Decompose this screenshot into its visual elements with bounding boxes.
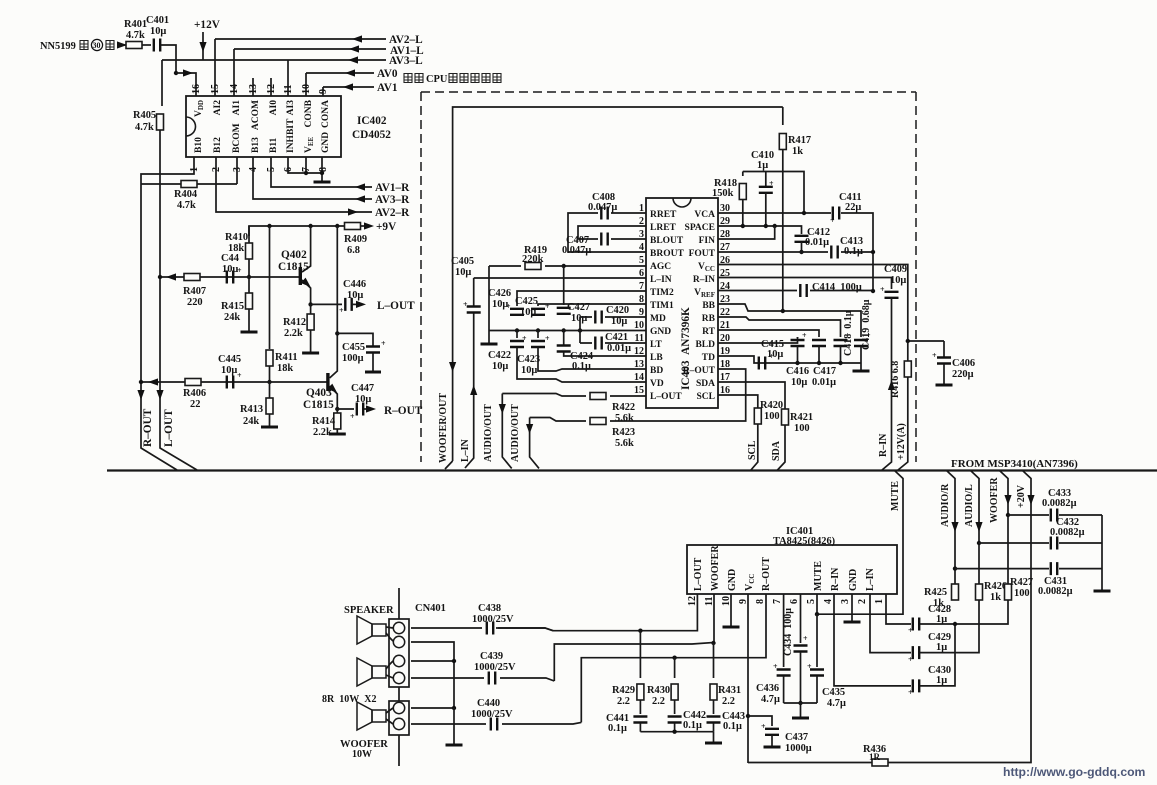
capacitor C447 — [337, 408, 354, 410]
svg-text:2.2: 2.2 — [617, 696, 630, 707]
svg-text:C401: C401 — [146, 15, 169, 26]
capacitor C414 — [800, 284, 806, 297]
wire pin16 SCL to R420 — [718, 395, 758, 408]
connector CN401 — [389, 588, 409, 766]
svg-text:10: 10 — [301, 84, 312, 94]
svg-text:R404: R404 — [174, 189, 197, 200]
wire L-OUT coupling row — [311, 303, 342, 305]
svg-text:C440: C440 — [477, 698, 500, 709]
wire Q402 emitter node — [308, 302, 312, 306]
capacitor C429 — [913, 646, 919, 659]
capacitor C422 — [488, 331, 527, 373]
svg-text:TIM1: TIM1 — [650, 301, 674, 311]
ground C434 — [792, 717, 809, 719]
svg-text:AV3–R: AV3–R — [375, 194, 410, 206]
capacitor C440 — [491, 718, 497, 731]
svg-text:+: + — [803, 634, 808, 643]
ground C437 — [764, 746, 781, 748]
svg-text:BD: BD — [650, 366, 663, 376]
svg-text:R–OUT: R–OUT — [142, 408, 154, 447]
svg-text:0.01μ: 0.01μ — [812, 377, 836, 388]
svg-text:+12V: +12V — [194, 19, 221, 31]
svg-text:10μ: 10μ — [492, 361, 508, 372]
ground R412 — [302, 352, 319, 354]
wire pin15 L-OUT row with R422 — [502, 394, 646, 397]
wire C433 row — [1008, 514, 1102, 516]
svg-text:10μ: 10μ — [347, 290, 363, 301]
svg-text:IC402: IC402 — [357, 115, 387, 127]
IC401 pin numbers rotated — [687, 596, 885, 606]
svg-text:+: + — [908, 688, 913, 697]
wire AV1 line from pin9 — [323, 87, 374, 96]
wire AV3-L line — [162, 59, 386, 61]
svg-text:16: 16 — [191, 84, 202, 94]
capacitor C437 — [748, 716, 812, 754]
svg-text:AI3: AI3 — [286, 100, 296, 116]
svg-text:24k: 24k — [224, 312, 240, 323]
resistor R420 — [754, 408, 761, 424]
wire bypass ground leg — [1101, 515, 1103, 590]
svg-text:11: 11 — [283, 85, 294, 94]
capacitor C426 — [510, 309, 524, 315]
svg-text:Q402: Q402 — [281, 249, 307, 261]
resistor R404 — [181, 181, 197, 188]
wire pin27 FOUT row — [718, 251, 873, 253]
svg-text:7: 7 — [772, 599, 783, 604]
wire pin21 RT bracket to C417 — [718, 330, 819, 337]
wire R411 column — [269, 226, 271, 349]
svg-text:18k: 18k — [277, 363, 293, 374]
wire R-IN riser — [882, 298, 892, 470]
node X junction — [174, 71, 178, 75]
resistor R429 — [612, 631, 644, 707]
capacitor C431 — [1051, 562, 1057, 575]
svg-text:LT: LT — [650, 340, 662, 350]
resistor R418 — [712, 172, 746, 227]
svg-text:AI0: AI0 — [269, 100, 279, 116]
svg-text:R410: R410 — [225, 232, 248, 243]
svg-text:4.7k: 4.7k — [135, 122, 154, 133]
svg-text:L–OUT: L–OUT — [377, 300, 415, 312]
svg-text:SCL: SCL — [747, 440, 758, 460]
svg-text:1k: 1k — [792, 146, 803, 157]
dashed CPU control box left edge — [420, 92, 422, 462]
svg-text:MUTE: MUTE — [890, 481, 901, 511]
wire pin20 BLD bracket to C416 — [718, 337, 798, 343]
svg-text:RB: RB — [702, 314, 716, 324]
svg-text:R401: R401 — [124, 19, 147, 30]
resistor R422 — [590, 393, 606, 400]
resistor R405 — [133, 60, 164, 133]
svg-text:AI2: AI2 — [213, 100, 223, 116]
capacitor C413 — [831, 246, 837, 259]
svg-text:+: + — [237, 371, 242, 380]
svg-text:C423: C423 — [517, 354, 540, 365]
svg-text:BCOM: BCOM — [232, 123, 242, 153]
wire R401 to C401 — [142, 44, 151, 46]
capacitor C412 — [795, 236, 809, 242]
capacitor C442 — [668, 700, 706, 732]
svg-text:13: 13 — [248, 84, 259, 94]
wire C429 to R426 — [920, 599, 979, 653]
capacitor C438 — [487, 622, 493, 635]
svg-text:10μ: 10μ — [150, 26, 166, 37]
wire AV1-R from pin5 — [271, 157, 372, 187]
ground GND bus — [488, 331, 490, 344]
svg-text:MD: MD — [650, 314, 666, 324]
svg-text:AV0: AV0 — [377, 68, 398, 80]
svg-text:L–OUT: L–OUT — [163, 409, 175, 447]
node R-OUT — [364, 408, 366, 410]
wire AV1-L line from pin14 — [234, 49, 386, 96]
svg-text:AV1–R: AV1–R — [375, 182, 410, 194]
capacitor C411 — [833, 207, 839, 220]
wire zobel ground bus — [640, 731, 713, 733]
wire L input row — [160, 276, 299, 278]
wire pin18 R-OUT to R423 — [530, 369, 746, 421]
wire pin8 TIM1 to C425 — [538, 304, 646, 306]
svg-text:C455: C455 — [342, 342, 365, 353]
wire NN5199 to R401 — [117, 44, 127, 46]
svg-text:+: + — [769, 179, 774, 188]
wire R419 left leg to gnd bus — [488, 266, 490, 331]
wire pin11 stub to AV3-L — [287, 60, 289, 96]
svg-text:100: 100 — [764, 411, 780, 422]
wire C428 to R425/R427 — [920, 599, 1008, 624]
svg-text:GND: GND — [848, 569, 859, 591]
svg-text:AV1–L: AV1–L — [390, 45, 424, 57]
svg-text:14: 14 — [229, 84, 240, 94]
svg-text:B10: B10 — [194, 137, 204, 153]
capacitor C421 — [595, 337, 601, 350]
resistor R426 — [976, 584, 983, 600]
svg-text:30: 30 — [93, 41, 101, 50]
svg-text:10μ: 10μ — [355, 394, 371, 405]
svg-text:L–IN: L–IN — [650, 275, 672, 285]
svg-text:+: + — [545, 302, 550, 311]
svg-text:BB: BB — [702, 301, 715, 311]
svg-text:L–IN: L–IN — [865, 567, 876, 591]
capacitor C443 — [707, 700, 746, 732]
svg-text:ACOM: ACOM — [251, 100, 261, 130]
svg-text:AUDIO/L: AUDIO/L — [964, 484, 975, 527]
wire C432 row — [979, 542, 1102, 544]
IC401 pin labels rotated — [693, 545, 876, 591]
svg-text:SDA: SDA — [696, 379, 715, 389]
wire pin7 TIM2 to C426 — [517, 291, 646, 306]
svg-text:BROUT: BROUT — [650, 249, 684, 259]
svg-text:AGC: AGC — [650, 262, 671, 272]
svg-text:AI1: AI1 — [232, 100, 242, 116]
svg-text:C416: C416 — [786, 366, 809, 377]
svg-text:C436: C436 — [756, 683, 779, 694]
svg-text:R407: R407 — [183, 286, 206, 297]
capacitor C409 — [880, 264, 907, 298]
resistor R401 — [126, 42, 142, 49]
svg-text:C445: C445 — [218, 354, 241, 365]
svg-text:+: + — [761, 722, 766, 731]
ground cap bus — [853, 370, 870, 372]
svg-text:0.01μ: 0.01μ — [607, 343, 631, 354]
svg-text:0.047μ: 0.047μ — [562, 245, 591, 256]
svg-text:C405: C405 — [451, 256, 474, 267]
svg-text:100: 100 — [794, 423, 810, 434]
svg-text:10μ: 10μ — [791, 377, 807, 388]
svg-text:1000μ: 1000μ — [785, 743, 812, 754]
wire C439 row — [411, 678, 554, 681]
svg-text:8R 10W X2: 8R 10W X2 — [322, 694, 376, 705]
wire C430 to R425 leg — [920, 624, 955, 686]
ground IC402 pin8 — [314, 181, 331, 183]
svg-text:LB: LB — [650, 353, 663, 363]
IC402 chip body — [186, 96, 341, 157]
svg-text:+12V(A): +12V(A) — [896, 423, 907, 460]
wire speaker return tie — [411, 642, 454, 708]
svg-text:+: + — [381, 339, 386, 348]
capacitor C407 — [601, 233, 607, 246]
svg-text:FROM MSP3410(AN7396): FROM MSP3410(AN7396) — [951, 458, 1078, 470]
capacitor C432 — [1051, 537, 1057, 550]
capacitor C428 — [913, 618, 919, 631]
svg-text:12: 12 — [266, 84, 277, 94]
svg-text:R406: R406 — [183, 388, 206, 399]
svg-text:R426: R426 — [984, 581, 1007, 592]
svg-text:C427: C427 — [567, 302, 590, 313]
wire C406 branch — [908, 340, 944, 342]
svg-text:0.1μ: 0.1μ — [723, 721, 742, 732]
wire Q403 emitter node — [335, 407, 339, 411]
svg-text:+: + — [830, 216, 835, 225]
wire AUDIO/OUT 2 riser — [530, 418, 539, 469]
svg-text:AV2–R: AV2–R — [375, 207, 410, 219]
speaker 2 — [357, 658, 393, 686]
svg-text:2: 2 — [857, 599, 868, 604]
svg-text:R411: R411 — [275, 352, 298, 363]
svg-text:10μ: 10μ — [455, 267, 471, 278]
svg-text:WOOFER/OUT: WOOFER/OUT — [438, 393, 449, 463]
capacitor C401 — [154, 39, 160, 52]
svg-text:http://www.go-gddq.com: http://www.go-gddq.com — [1003, 765, 1146, 779]
svg-text:B12: B12 — [213, 137, 223, 153]
svg-text:FOUT: FOUT — [689, 249, 716, 259]
wire pin5 MUTE lead — [817, 471, 903, 615]
resistor R414 — [312, 409, 341, 438]
svg-text:R427: R427 — [1010, 577, 1033, 588]
wire C423 to pin13 BD — [538, 348, 646, 372]
svg-text:MUTE: MUTE — [813, 561, 824, 591]
svg-text:0.1μ: 0.1μ — [572, 361, 591, 372]
resistor R407 — [184, 274, 200, 281]
resistor R423 — [590, 418, 606, 425]
svg-text:0.047μ: 0.047μ — [588, 202, 617, 213]
svg-text:CD4052: CD4052 — [352, 129, 391, 141]
svg-text:R–OUT: R–OUT — [761, 557, 772, 591]
capacitor C427 — [557, 266, 590, 324]
svg-text:AUDIO/OUT: AUDIO/OUT — [510, 404, 521, 462]
svg-text:10μ: 10μ — [520, 307, 536, 318]
capacitor C436 — [756, 662, 791, 705]
svg-text:CPU: CPU — [426, 74, 448, 85]
svg-text:C425: C425 — [515, 296, 538, 307]
wire pin3 GND stub — [851, 594, 853, 621]
svg-text:1k: 1k — [933, 598, 944, 609]
wire pin1 RRET loop with C408 — [568, 213, 646, 252]
wire pin4 R-IN to C430 — [834, 594, 911, 686]
power +12V — [194, 19, 221, 60]
svg-text:0.0082μ: 0.0082μ — [1042, 498, 1077, 509]
wire pin23 BB bracket to C419 — [718, 304, 861, 337]
svg-text:R422: R422 — [612, 402, 635, 413]
svg-text:2.2: 2.2 — [722, 696, 735, 707]
svg-text:1R: 1R — [869, 752, 881, 762]
svg-text:C409: C409 — [884, 264, 907, 275]
svg-text:B13: B13 — [251, 137, 261, 153]
svg-text:4.7μ: 4.7μ — [761, 694, 780, 705]
svg-text:+: + — [802, 331, 807, 340]
wire pin30 VCA row — [718, 213, 873, 291]
svg-text:R425: R425 — [924, 587, 947, 598]
svg-text:WOOFER: WOOFER — [989, 477, 1000, 523]
svg-text:10μ: 10μ — [767, 349, 783, 360]
svg-text:0.0082μ: 0.0082μ — [1038, 586, 1073, 597]
resistor R419 — [489, 265, 564, 267]
svg-text:CONA: CONA — [321, 100, 331, 128]
ground R415 — [241, 331, 258, 333]
IC403 chip body — [646, 198, 718, 408]
svg-text:C422: C422 — [488, 350, 511, 361]
wire AGC row pin5 — [564, 265, 646, 267]
svg-text:R421: R421 — [790, 412, 813, 423]
resistor R412 — [283, 304, 314, 352]
svg-text:BLD: BLD — [695, 340, 715, 350]
wire node X to pin16 — [176, 73, 196, 96]
svg-text:R415: R415 — [221, 301, 244, 312]
ground R414 — [329, 433, 346, 435]
wire pin2 loop with C407 — [578, 226, 646, 239]
svg-text:9: 9 — [318, 89, 329, 94]
resistor R415 — [221, 277, 253, 331]
svg-text:C439: C439 — [480, 651, 503, 662]
svg-text:C421: C421 — [605, 332, 628, 343]
svg-text:4.7μ: 4.7μ — [827, 698, 846, 709]
speaker 1 — [357, 616, 393, 644]
svg-text:+: + — [522, 334, 527, 343]
svg-text:GND: GND — [650, 327, 671, 337]
resistor R436 — [872, 759, 888, 766]
svg-text:6: 6 — [789, 599, 800, 604]
resistor R409 — [345, 223, 361, 230]
svg-text:22: 22 — [190, 399, 200, 410]
wire WOOFER line — [1000, 471, 1009, 587]
IC403 left pin numbers — [634, 203, 644, 396]
svg-text:C418 0.1μ: C418 0.1μ — [843, 310, 854, 356]
power +9V — [360, 225, 364, 227]
resistor R413 — [240, 382, 273, 427]
resistor R406 — [185, 379, 201, 386]
capacitor C445 — [227, 376, 233, 389]
capacitor C439 — [489, 672, 495, 685]
svg-text:C44: C44 — [221, 253, 239, 264]
svg-text:+: + — [545, 334, 550, 343]
capacitor C441 — [606, 700, 647, 734]
dashed CPU control box right edge — [915, 92, 917, 462]
svg-text:3: 3 — [840, 599, 851, 604]
svg-text:WOOFER: WOOFER — [710, 545, 721, 591]
capacitor C430 — [913, 679, 919, 692]
wire AUDIO/R line — [947, 471, 956, 587]
svg-text:TD: TD — [702, 353, 715, 363]
svg-text:C437: C437 — [785, 732, 808, 743]
IC403 left pin labels — [650, 210, 684, 402]
wire pin11 LT row with C421 — [580, 342, 646, 344]
svg-text:GND: GND — [727, 569, 738, 591]
wire pin8 R-OUT lead — [581, 594, 766, 722]
wire C424 to pin12 LB — [564, 352, 646, 356]
svg-text:2.2: 2.2 — [652, 696, 665, 707]
svg-text:8: 8 — [755, 599, 766, 604]
svg-text:1μ: 1μ — [936, 642, 947, 653]
svg-text:C1815: C1815 — [278, 261, 309, 273]
svg-text:RT: RT — [702, 327, 716, 337]
capacitor C423 — [517, 331, 550, 377]
svg-text:L–OUT: L–OUT — [650, 392, 682, 402]
wire pin26 Vcc row — [718, 265, 908, 362]
ground IC401 pin10 — [723, 626, 740, 628]
wire AV2-L line from pin15 — [215, 39, 386, 96]
wire C422 to pin14 VD — [517, 348, 646, 383]
IC403 right pin numbers — [720, 203, 730, 396]
resistor R431 — [710, 643, 741, 707]
svg-text:15: 15 — [210, 84, 221, 94]
svg-text:15: 15 — [634, 385, 644, 396]
resistor R425 — [952, 584, 959, 600]
svg-text:BLOUT: BLOUT — [650, 236, 684, 246]
wire pin9 Vcc column — [747, 594, 749, 763]
svg-text:C446: C446 — [343, 279, 366, 290]
wire R404 row — [141, 157, 237, 184]
svg-text:10μ: 10μ — [890, 275, 906, 286]
svg-text:5: 5 — [806, 599, 817, 604]
svg-text:+: + — [908, 655, 913, 664]
resistor R417 — [779, 107, 811, 311]
wire L-IN row pin6 — [474, 277, 646, 279]
svg-text:R–OUT: R–OUT — [683, 366, 716, 376]
svg-text:SPEAKER: SPEAKER — [344, 605, 394, 616]
svg-text:INHBIT: INHBIT — [286, 118, 296, 153]
capacitor C424 — [557, 331, 593, 373]
svg-text:1000/25V: 1000/25V — [474, 662, 516, 673]
wire FIN bracket top — [743, 172, 804, 214]
svg-text:220: 220 — [187, 297, 203, 308]
capacitor C446 — [345, 298, 351, 311]
svg-text:R414: R414 — [312, 416, 335, 427]
wire pin6 to C434 — [800, 594, 802, 643]
capacitor C455 — [337, 333, 386, 372]
svg-text:R–OUT: R–OUT — [384, 405, 423, 417]
capacitor C410 — [751, 150, 774, 226]
svg-text:R405: R405 — [133, 110, 156, 121]
wire AUDIO/L line — [971, 471, 980, 587]
svg-text:5.6k: 5.6k — [615, 413, 634, 424]
wire pin2 L-IN to C429 — [870, 594, 911, 653]
dashed CPU control box top edge — [421, 91, 916, 93]
wire AV2-R from pin2 — [216, 157, 372, 212]
IC403 right pin labels — [683, 210, 716, 402]
capacitor C415 — [759, 357, 765, 370]
wire AV0 line from pin10 — [306, 73, 374, 96]
ground zobel bus — [713, 732, 715, 742]
svg-text:TA8425(8426): TA8425(8426) — [773, 536, 835, 547]
